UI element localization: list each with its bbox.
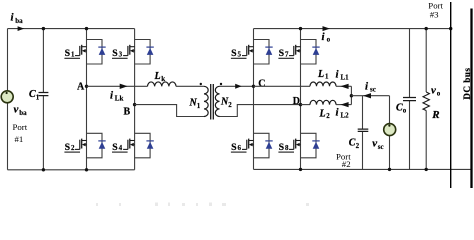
node dot rail-bus — [449, 27, 452, 30]
inductor Lk — [148, 82, 177, 86]
wire: transformer secondary top to node C — [220, 85, 254, 87]
faint caption remnants at bottom — [96, 203, 309, 207]
switch S7 — [289, 40, 320, 65]
switch S5 — [242, 40, 273, 65]
svg-text:6: 6 — [238, 144, 242, 152]
svg-text:5: 5 — [238, 50, 242, 58]
node A dot — [85, 85, 88, 88]
wire: left bottom rail — [8, 169, 135, 171]
svg-text:o: o — [327, 36, 331, 44]
svg-text:C: C — [258, 79, 265, 90]
svg-text:sc: sc — [378, 143, 384, 151]
transformer core lines — [211, 84, 214, 120]
switch S8 — [289, 133, 320, 158]
polarity dot primary — [200, 83, 202, 85]
svg-text:A: A — [77, 81, 85, 92]
capacitor Co branch wires — [409, 29, 411, 170]
node dot rail-R bottom — [425, 168, 428, 171]
svg-text:7: 7 — [285, 50, 289, 58]
node dot rail-S1 — [85, 27, 88, 30]
svg-text:4: 4 — [119, 144, 123, 152]
wire: node B row to transformer primary bottom — [135, 105, 204, 117]
node dot rail-S7 — [299, 27, 302, 30]
wire: right leg 1 (S5/S6) — [253, 29, 255, 170]
node dot rail-S2 bottom — [85, 168, 88, 171]
svg-text:L: L — [319, 109, 326, 120]
node dot rail-C1 top — [42, 27, 45, 30]
capacitor C2 plates — [358, 129, 369, 131]
svg-text:Port: Port — [13, 122, 28, 132]
node dot rail-C1 bottom — [42, 168, 45, 171]
current arrow i_L2 (points left) — [340, 102, 348, 107]
node dot i_sc tap — [350, 94, 353, 97]
svg-text:v: v — [431, 85, 436, 97]
svg-text:2: 2 — [326, 112, 330, 120]
svg-text:S: S — [231, 142, 237, 153]
current arrow into node C — [235, 84, 241, 89]
resistor R branch wires — [425, 29, 427, 170]
wire: leg 1 (S1/S2) vertical — [86, 29, 88, 170]
current arrow i_Lk — [120, 84, 128, 89]
wire: i_sc horizontal to v_sc branch — [351, 95, 389, 97]
wire: right leg 2 (S7/S8) — [300, 29, 302, 170]
node D dot — [299, 103, 302, 106]
svg-text:8: 8 — [285, 144, 289, 152]
svg-text:S: S — [65, 48, 71, 59]
svg-text:1: 1 — [325, 72, 329, 80]
svg-text:2: 2 — [356, 142, 360, 150]
wire: left top rail — [8, 28, 135, 30]
source v_ba (green circle) — [1, 91, 13, 103]
svg-text:S: S — [279, 48, 285, 59]
switch S4 — [123, 133, 154, 158]
wire: v_sc branch vertical — [389, 96, 391, 170]
transformer secondary winding N2 — [215, 86, 219, 116]
svg-text:R: R — [431, 109, 439, 121]
svg-text:2: 2 — [228, 101, 232, 109]
svg-text:o: o — [403, 107, 407, 115]
wire: node D row to L2 — [301, 104, 311, 106]
svg-text:3: 3 — [119, 50, 123, 58]
wire: L1/L2 junction vertical — [350, 86, 352, 104]
node B dot — [133, 103, 136, 106]
svg-text:ba: ba — [19, 109, 27, 117]
inductor L1 — [310, 82, 336, 86]
switch S2 — [75, 133, 106, 158]
svg-text:2: 2 — [71, 144, 75, 152]
node dot rail-R top — [425, 27, 428, 30]
switch S3 — [123, 40, 154, 65]
svg-text:1: 1 — [197, 102, 201, 110]
svg-text:Lk: Lk — [115, 94, 124, 102]
wire: left vertical (port 1 branch) — [7, 29, 9, 170]
DC bus line 1 — [450, 2, 452, 188]
svg-text:o: o — [437, 90, 441, 98]
svg-text:L: L — [317, 69, 324, 80]
source v_sc (green circle) — [384, 124, 396, 136]
current arrow i_o — [323, 26, 331, 31]
wire: node C row to L1 — [254, 85, 311, 87]
node C dot — [252, 85, 255, 88]
node dot rail-S8 — [299, 168, 302, 171]
svg-text:S: S — [112, 48, 118, 59]
wire: transformer secondary bottom to node D row — [220, 105, 301, 117]
svg-text:S: S — [279, 142, 285, 153]
svg-text:#1: #1 — [15, 134, 24, 144]
wire: right bottom rail — [254, 168, 472, 170]
polarity dot secondary — [220, 83, 222, 85]
DC bus line 2 (thick) — [470, 9, 472, 189]
svg-text:k: k — [161, 75, 165, 83]
wire: right top rail — [254, 28, 451, 30]
svg-text:1: 1 — [36, 94, 40, 102]
svg-text:DC bus: DC bus — [463, 68, 473, 100]
current arrow i_L1 (points left) — [340, 84, 348, 89]
current arrow i_sc (points left) — [363, 93, 371, 98]
svg-text:S: S — [231, 48, 237, 59]
svg-text:S: S — [65, 142, 71, 153]
svg-text:L: L — [154, 71, 161, 82]
svg-text:#2: #2 — [342, 159, 351, 169]
svg-text:L2: L2 — [341, 112, 350, 120]
node dot v_sc bottom — [388, 168, 391, 171]
switch S6 — [242, 133, 273, 158]
svg-text:#3: #3 — [430, 10, 439, 20]
svg-text:B: B — [124, 106, 131, 117]
svg-text:D: D — [293, 96, 300, 107]
transformer primary winding N1 — [204, 86, 208, 116]
resistor R zigzag — [423, 92, 429, 110]
wire: L2 to junction — [336, 104, 351, 106]
wire: L1 to junction — [336, 85, 351, 87]
wire: Lk to transformer primary top — [176, 85, 204, 87]
svg-text:sc: sc — [370, 86, 376, 94]
capacitor C2 branch wires — [362, 96, 364, 170]
wire: node A row to Lk — [87, 85, 148, 87]
capacitor C1 plates — [39, 93, 49, 96]
svg-text:v: v — [14, 104, 19, 116]
svg-text:ba: ba — [15, 17, 23, 25]
wire: leg 2 (S3/S4) vertical — [134, 29, 136, 170]
svg-text:L1: L1 — [341, 74, 350, 82]
capacitor Co plates — [403, 98, 416, 101]
svg-text:S: S — [112, 142, 118, 153]
svg-text:v: v — [372, 138, 377, 150]
current arrow i_ba — [18, 26, 25, 31]
inductor L2 — [310, 100, 336, 104]
switch S1 (MOSFET + diode) — [75, 40, 106, 65]
svg-text:1: 1 — [71, 50, 75, 58]
capacitor C1 branch wires — [42, 29, 44, 170]
